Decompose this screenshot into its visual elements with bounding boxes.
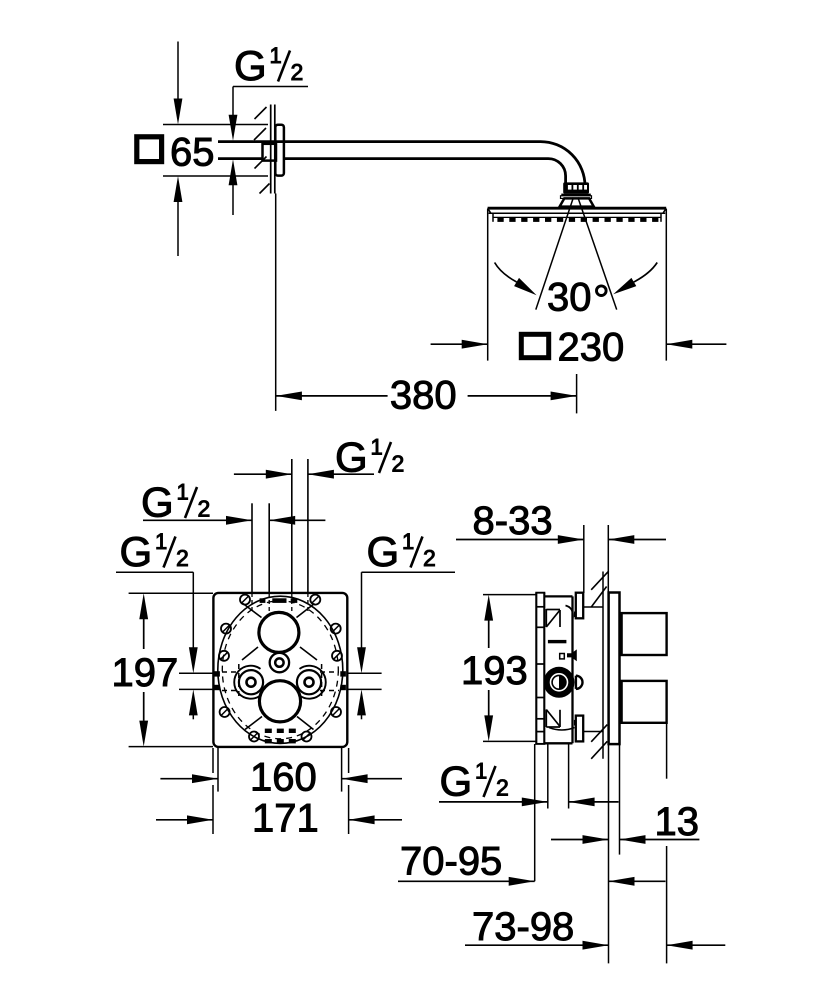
dimension G1/2 side bbox=[439, 798, 619, 807]
body bottom curve bbox=[549, 728, 575, 731]
top tab bbox=[574, 593, 603, 619]
svg-text:30: 30 bbox=[547, 276, 592, 320]
dimension 8-33 bbox=[456, 525, 666, 593]
side channel marks bbox=[214, 664, 346, 698]
dimension 197 bbox=[129, 593, 213, 746]
svg-text:1: 1 bbox=[475, 759, 487, 784]
valve body bbox=[544, 596, 572, 743]
dimension 171 bbox=[156, 748, 402, 834]
label G 1/2 inlet (middle left) bbox=[141, 479, 210, 526]
body zigzag bottom bbox=[546, 710, 560, 728]
channel dashed verticals inside top bbox=[252, 593, 308, 611]
svg-text:2: 2 bbox=[176, 545, 189, 571]
wall hatching (top) bbox=[254, 107, 270, 194]
dimension row middle ports bbox=[143, 516, 325, 525]
svg-text:G: G bbox=[367, 528, 400, 575]
right port circle bbox=[297, 670, 321, 694]
dimension 160 bbox=[160, 748, 402, 792]
bottom valve circle bbox=[259, 681, 300, 722]
body zigzag top bbox=[546, 609, 560, 627]
thread nipple bbox=[263, 144, 277, 161]
svg-text:2: 2 bbox=[496, 775, 509, 801]
svg-text:1: 1 bbox=[371, 435, 383, 460]
wire: G 1/2 label leader (top) bbox=[233, 87, 308, 116]
shower head nozzles bbox=[497, 217, 658, 222]
svg-text:171: 171 bbox=[252, 796, 319, 840]
top channel marks bbox=[260, 598, 298, 603]
extension lines below side view bbox=[535, 723, 667, 963]
shower head connector nut bbox=[561, 182, 592, 198]
bottom channel marks bbox=[265, 729, 296, 744]
label G 1/2 outlet (top right) bbox=[335, 434, 404, 481]
svg-text:G: G bbox=[141, 479, 174, 526]
svg-text:193: 193 bbox=[461, 649, 528, 693]
front plate bbox=[609, 593, 620, 745]
body bar bbox=[548, 640, 567, 643]
wall flange escutcheon bbox=[275, 125, 284, 176]
svg-text:380: 380 bbox=[390, 374, 457, 418]
svg-text:1: 1 bbox=[270, 43, 282, 68]
svg-text:2: 2 bbox=[392, 451, 405, 477]
spray angle lines bbox=[536, 198, 617, 310]
head extension lines bbox=[488, 209, 667, 361]
port extension lines above box bbox=[252, 459, 308, 593]
spray angle arc arrows bbox=[495, 263, 658, 296]
handle knob top bbox=[622, 613, 667, 655]
shower arm pipe bbox=[218, 142, 585, 187]
leader right G1/2 bbox=[357, 572, 455, 719]
dimension 193 bbox=[483, 595, 536, 742]
square symbol 230 bbox=[521, 334, 548, 357]
top valve circle bbox=[259, 612, 299, 652]
dimension row top-right ports bbox=[234, 470, 374, 479]
wall extension line down to 380 dim bbox=[275, 194, 277, 411]
mounting rail bbox=[535, 593, 545, 744]
side port extension lines bbox=[179, 673, 382, 689]
svg-text:8-33: 8-33 bbox=[473, 499, 553, 543]
dimension 230 bbox=[431, 340, 727, 349]
struts bbox=[242, 604, 317, 730]
dimension 65 outer arrows bbox=[174, 42, 183, 257]
text 30 deg bbox=[547, 276, 606, 320]
handle knob bottom bbox=[622, 681, 667, 723]
shower head cone bbox=[560, 198, 594, 206]
label G 1/2 connection (side view) bbox=[440, 758, 509, 805]
svg-text:1: 1 bbox=[177, 480, 189, 505]
leader left G1/2 bbox=[116, 572, 198, 719]
square symbol 65 bbox=[137, 137, 162, 162]
svg-text:1: 1 bbox=[402, 529, 414, 554]
dimension 65 lines bbox=[163, 125, 268, 177]
svg-text:G: G bbox=[120, 528, 153, 575]
svg-text:73-98: 73-98 bbox=[472, 905, 574, 949]
left port circle bbox=[239, 670, 263, 694]
dimension 70-95 bbox=[398, 877, 666, 886]
body top curve bbox=[566, 606, 573, 619]
wall hatching (side view) bbox=[591, 571, 608, 759]
middle ring bbox=[270, 653, 289, 672]
svg-text:13: 13 bbox=[655, 800, 700, 844]
rough-in box outline bbox=[213, 593, 347, 747]
svg-text:1: 1 bbox=[155, 529, 167, 554]
shower head plate bbox=[488, 208, 667, 222]
svg-text:2: 2 bbox=[198, 496, 211, 522]
svg-text:G: G bbox=[440, 758, 473, 805]
bottom tab bbox=[574, 716, 603, 742]
label G 1/2 thread (shower arm) bbox=[234, 42, 303, 89]
dimension 73-98 bbox=[465, 941, 725, 950]
svg-text:70-95: 70-95 bbox=[400, 839, 502, 883]
label G 1/2 side port (right) bbox=[367, 528, 436, 575]
wall (top view) bbox=[271, 105, 275, 194]
adjustment knob circle bbox=[544, 667, 583, 698]
dimension 13 bbox=[551, 835, 699, 844]
svg-text:G: G bbox=[234, 42, 267, 89]
svg-text:160: 160 bbox=[250, 755, 317, 799]
label G 1/2 side port (left) bbox=[120, 528, 189, 575]
dimension 380 bbox=[276, 374, 577, 413]
screw bosses bbox=[219, 595, 342, 742]
svg-text:2: 2 bbox=[291, 59, 304, 85]
body small icon bbox=[560, 649, 577, 661]
plaster shield inner dashed bbox=[222, 601, 338, 739]
plaster shield oval bbox=[218, 596, 343, 743]
wall line (side view) bbox=[602, 572, 604, 759]
port flange arcs bbox=[234, 666, 326, 699]
svg-text:230: 230 bbox=[558, 325, 625, 369]
svg-text:197: 197 bbox=[112, 651, 179, 695]
svg-text:65: 65 bbox=[170, 131, 215, 175]
dimension G1/2 pipe arrows bbox=[229, 115, 238, 215]
svg-text:2: 2 bbox=[423, 545, 436, 571]
